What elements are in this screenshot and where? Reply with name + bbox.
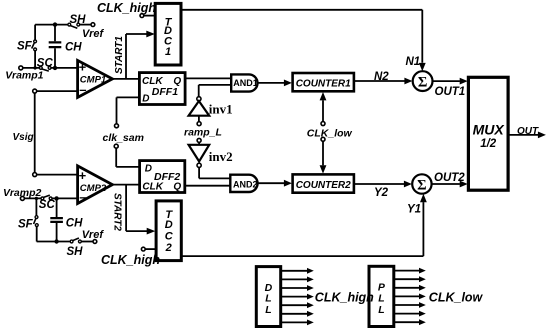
- DLL: [256, 267, 280, 327]
- wire CMP1 minus input from Vsig node: [33, 89, 78, 93]
- svg-text:SC: SC: [37, 57, 54, 69]
- DFF1: [139, 73, 185, 105]
- svg-text:Σ: Σ: [417, 177, 426, 193]
- svg-text:C: C: [165, 231, 174, 243]
- TDC2: [156, 201, 181, 261]
- wire N2 to summer: [354, 71, 413, 85]
- svg-text:inv2: inv2: [209, 149, 233, 164]
- MUX: [468, 77, 508, 190]
- wire SH to Vref (ch2): [81, 241, 93, 243]
- svg-text:OUT: OUT: [517, 126, 539, 137]
- wire top line to switch SH: [35, 24, 68, 26]
- svg-text:CLK: CLK: [142, 181, 163, 192]
- node CLK_high into TDC2: [101, 247, 160, 267]
- svg-text:L: L: [265, 304, 271, 316]
- net Vsig vertical: [13, 93, 35, 172]
- svg-text:OUT1: OUT1: [435, 86, 466, 98]
- svg-text:CMP2: CMP2: [80, 183, 107, 194]
- summer S1: [413, 71, 433, 91]
- svg-text:Vsig: Vsig: [13, 132, 34, 143]
- node Vref terminal (ch2): [82, 229, 105, 243]
- COUNTER1: [293, 73, 354, 91]
- wire DFF2 Q to AND2: [185, 185, 231, 187]
- svg-text:SC: SC: [39, 199, 56, 211]
- svg-text:CLK_low: CLK_low: [307, 128, 353, 140]
- svg-text:CLK_low: CLK_low: [429, 291, 484, 305]
- svg-text:inv1: inv1: [209, 102, 233, 117]
- svg-text:SH: SH: [67, 246, 84, 258]
- node Vramp1 terminal: [5, 66, 43, 82]
- wire SC to CMP2 minus input: [52, 197, 78, 199]
- net ramp_L: [184, 122, 222, 143]
- svg-text:DFF1: DFF1: [152, 86, 178, 98]
- svg-text:Σ: Σ: [418, 74, 427, 90]
- svg-text:Y1: Y1: [407, 204, 421, 216]
- DFF2: [140, 161, 185, 193]
- svg-text:N2: N2: [374, 71, 389, 83]
- node Vref terminal (ch1): [82, 23, 105, 40]
- wire AND2 to COUNTER2: [258, 180, 292, 187]
- svg-text:OUT2: OUT2: [434, 172, 465, 184]
- comparator CMP1: [78, 60, 113, 98]
- svg-text:Vref: Vref: [82, 229, 105, 241]
- wire SF2 vertical: [35, 198, 37, 241]
- svg-text:Q: Q: [173, 181, 181, 192]
- svg-text:L: L: [378, 292, 384, 304]
- svg-text:clk_sam: clk_sam: [103, 132, 144, 144]
- svg-text:1: 1: [165, 46, 171, 58]
- switch SF (ch1): [17, 40, 36, 53]
- wire Vramp2 to switch SC (ch2): [25, 197, 42, 199]
- svg-text:CMP1: CMP1: [80, 74, 106, 85]
- wire clk_sam to DFF2 D: [116, 148, 139, 167]
- summer S2: [412, 174, 431, 193]
- wire START1 to TDC1: [114, 31, 155, 79]
- wire TDC1 output to summer (N1): [181, 10, 426, 72]
- wire START2 to TDC2: [111, 185, 155, 235]
- wire AND1 to COUNTER1: [258, 80, 292, 87]
- wire Y1 from TDC2 to summer: [181, 194, 426, 256]
- svg-text:+: +: [79, 168, 87, 183]
- wire inv1 output to AND1: [199, 85, 231, 97]
- switch SH (ch2): [67, 238, 84, 258]
- wire DFF1 Q to AND1: [185, 77, 231, 79]
- svg-text:AND2: AND2: [233, 179, 258, 189]
- wire DFF1 D to clk_sam node: [115, 97, 140, 127]
- node Vramp2 terminal: [3, 187, 41, 200]
- wire Y2 to summer: [354, 181, 412, 199]
- switch SF (ch2): [18, 216, 38, 231]
- svg-text:SF: SF: [17, 41, 33, 53]
- svg-text:Y2: Y2: [374, 187, 389, 199]
- capacitor CH (ch1): [49, 25, 83, 68]
- TDC1: [155, 3, 181, 65]
- svg-text:L: L: [265, 293, 271, 305]
- capacitor CH (ch2): [50, 198, 83, 241]
- wire SC to CMP1 plus input: [51, 67, 78, 69]
- svg-text:CLK_high: CLK_high: [315, 291, 374, 305]
- svg-text:MUX: MUX: [473, 121, 506, 137]
- inverter inv1: [189, 97, 233, 122]
- inverter inv2: [189, 143, 233, 168]
- svg-text:2: 2: [165, 242, 172, 254]
- wire OUT from MUX: [508, 126, 546, 138]
- switch SC (ch1): [37, 57, 54, 71]
- switch SH (ch1): [68, 14, 86, 28]
- svg-text:COUNTER1: COUNTER1: [296, 79, 351, 90]
- comparator CMP2: [78, 166, 113, 205]
- switch SC (ch2): [39, 195, 56, 211]
- wire OUT1 to MUX: [433, 78, 468, 98]
- svg-text:N1: N1: [406, 56, 421, 68]
- svg-text:CH: CH: [65, 41, 82, 53]
- PLL clock output arrows (CLK_low): [394, 268, 484, 325]
- AND1: [231, 74, 258, 91]
- svg-text:D: D: [145, 164, 152, 175]
- svg-text:COUNTER2: COUNTER2: [296, 180, 351, 191]
- junction dots (ch2 network): [35, 196, 59, 244]
- svg-text:D: D: [142, 94, 149, 105]
- junction dots (ch1 network): [33, 22, 57, 70]
- COUNTER2: [293, 174, 354, 192]
- svg-text:D: D: [165, 219, 173, 231]
- svg-text:ramp_L: ramp_L: [184, 127, 222, 139]
- wire bottom line to switch SH (ch2): [37, 241, 71, 243]
- svg-text:START1: START1: [114, 36, 125, 74]
- svg-text:CH: CH: [66, 218, 83, 230]
- net CLK_low between counters: [307, 92, 353, 174]
- net clk_sam: [103, 132, 144, 148]
- PLL: [369, 266, 394, 326]
- svg-text:Vramp1: Vramp1: [5, 70, 43, 82]
- AND2: [230, 175, 257, 192]
- node CLK_high into TDC1: [97, 1, 156, 18]
- svg-text:CLK_high: CLK_high: [97, 1, 156, 15]
- wire inv2 output to AND2: [199, 168, 230, 179]
- wire top-left vertical (to SF): [34, 25, 36, 68]
- wire Vramp1 to switch SC: [23, 67, 39, 69]
- wire OUT2 to MUX: [432, 172, 468, 187]
- svg-text:+: +: [79, 60, 87, 75]
- svg-text:Vref: Vref: [82, 28, 105, 40]
- DLL clock output arrows (CLK_high): [281, 268, 374, 325]
- svg-text:AND1: AND1: [233, 78, 258, 88]
- wire CMP2 output to DFF2 CLK: [112, 184, 139, 186]
- wire CMP2 plus input from Vsig node: [33, 173, 78, 177]
- svg-text:START2: START2: [111, 193, 122, 231]
- wire SH to Vref: [80, 24, 91, 26]
- svg-text:CLK_high: CLK_high: [101, 253, 160, 267]
- svg-text:SF: SF: [18, 219, 34, 231]
- svg-text:1/2: 1/2: [480, 138, 497, 150]
- wire CMP1 output to DFF1 CLK: [112, 78, 139, 80]
- svg-text:L: L: [378, 304, 384, 316]
